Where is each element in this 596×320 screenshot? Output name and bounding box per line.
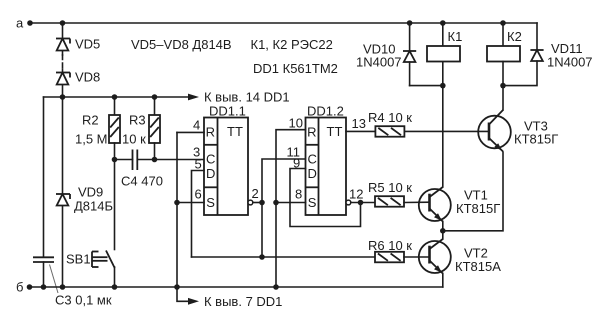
- transistor VT3 КТ815Г: [478, 110, 558, 152]
- svg-text:КТ815Г: КТ815Г: [514, 132, 558, 147]
- svg-text:5: 5: [195, 157, 202, 172]
- wire Q1 down to R6 row: [261, 203, 263, 258]
- wire ground vertical x=177 (pins 4,6 to bottom rail): [176, 132, 178, 287]
- node K1 bottom / VD10: [440, 83, 446, 89]
- node Q1 / R6 row: [259, 254, 265, 260]
- svg-text:13: 13: [352, 116, 366, 131]
- svg-text:6: 6: [195, 187, 202, 202]
- node R2 top: [112, 94, 118, 100]
- svg-text:D: D: [206, 166, 215, 181]
- svg-text:С4 470: С4 470: [121, 174, 163, 189]
- svg-text:1N4007: 1N4007: [547, 55, 593, 70]
- svg-text:2: 2: [252, 186, 259, 201]
- capacitor C3 0,1 мк: [33, 97, 112, 308]
- svg-text:С3 0,1 мк: С3 0,1 мк: [55, 293, 112, 308]
- flip-flop DD1.2 К561ТМ2: [306, 104, 347, 216]
- wire VT2 collector to common node: [442, 231, 444, 239]
- svg-text:10: 10: [289, 116, 303, 131]
- transistor VT2 КТ815А: [419, 239, 501, 274]
- svg-text:12: 12: [349, 187, 363, 202]
- transistor VT1 КТ815Г: [419, 187, 500, 222]
- wire Q1 to pin 11 of DD1.2: [262, 159, 306, 203]
- svg-text:C: C: [308, 152, 317, 167]
- wire R6 row (D1 feedback to R6): [192, 256, 376, 258]
- wire VT1 emitter to common node: [442, 222, 444, 231]
- svg-text:1,5 М: 1,5 М: [75, 132, 108, 147]
- wire pin 13 output to R4: [346, 130, 375, 132]
- node R2 bottom / C4: [112, 157, 118, 163]
- svg-text:S: S: [308, 195, 317, 210]
- svg-text:К выв. 7 DD1: К выв. 7 DD1: [204, 294, 282, 309]
- node R3 bottom / pin3 wire: [152, 157, 158, 163]
- svg-text:Д814Б: Д814Б: [74, 199, 113, 214]
- svg-text:S: S: [206, 195, 215, 210]
- wire dashed (omitted VD6,VD7): [62, 55, 64, 69]
- resistor R4 10 к: [368, 110, 489, 137]
- node b (terminal б): [16, 280, 32, 295]
- diode VD10 1N4007: [356, 23, 443, 86]
- wire pin 2 output with inversion bubble: [248, 200, 262, 205]
- svg-text:R4 10 к: R4 10 к: [368, 110, 412, 125]
- zener diode VD5 Д814В: [56, 37, 100, 52]
- svg-text:TT: TT: [327, 124, 343, 139]
- node pin12 / feedback: [358, 200, 364, 206]
- wire common node to VT3 emitter: [443, 152, 503, 231]
- svg-text:R2: R2: [82, 113, 99, 128]
- node a (terminal а): [16, 16, 33, 31]
- svg-text:R5 10 к: R5 10 к: [368, 180, 412, 195]
- wire pin 9 (D input) feedback loop: [290, 169, 361, 227]
- svg-text:DD1.2: DD1.2: [307, 104, 344, 119]
- switch SB1 push button: [66, 251, 115, 288]
- resistor R6 10 к: [368, 238, 430, 262]
- svg-text:а: а: [16, 16, 24, 31]
- node VD9 bottom: [60, 284, 66, 290]
- svg-text:8: 8: [295, 187, 302, 202]
- node K1 top: [440, 20, 446, 26]
- wire VT3 collector to K2: [502, 86, 504, 110]
- node ground vertical / bottom rail: [174, 284, 180, 290]
- wire pin 12 output with inversion bubble: [346, 200, 375, 205]
- svg-text:КТ815Г: КТ815Г: [456, 201, 500, 216]
- wire middle rail (to К выв. 14 DD1): [44, 96, 190, 98]
- relay K2 РЭС22 coil: [487, 23, 522, 86]
- wire pin 10 (R input): [276, 130, 306, 287]
- wire VD9 branch: [62, 97, 64, 287]
- svg-text:К выв. 14 DD1: К выв. 14 DD1: [204, 90, 290, 105]
- node K2 bottom / VD11: [500, 83, 506, 89]
- svg-text:К1, К2 РЭС22: К1, К2 РЭС22: [251, 37, 333, 52]
- zener diode VD9 Д814Б: [56, 185, 113, 214]
- node VT1 emitter / VT2 collector: [440, 228, 446, 234]
- zener diode VD8 Д814В: [56, 69, 100, 97]
- wire top rail: [30, 22, 537, 24]
- wire pin 6 (S input): [177, 202, 204, 204]
- svg-text:VD9: VD9: [78, 185, 103, 200]
- svg-text:R3: R3: [129, 113, 146, 128]
- node K2 top: [500, 20, 506, 26]
- node R3 top: [152, 94, 158, 100]
- svg-text:C: C: [206, 152, 215, 167]
- svg-text:DD1 К561ТМ2: DD1 К561ТМ2: [253, 61, 338, 76]
- wire SB1 branch from R2 bottom: [114, 160, 116, 250]
- svg-text:4: 4: [193, 118, 200, 133]
- wire pin 8 (S input): [276, 202, 306, 204]
- svg-text:D: D: [308, 166, 317, 181]
- node pin6 / ground vertical: [174, 200, 180, 206]
- svg-text:R: R: [307, 125, 316, 140]
- node pin8 / pin10 vertical: [273, 200, 279, 206]
- node Q1 split: [259, 200, 265, 206]
- svg-text:10 к: 10 к: [122, 132, 146, 147]
- svg-text:TT: TT: [227, 124, 243, 139]
- svg-text:1N4007: 1N4007: [356, 55, 402, 70]
- wire arrow К выв. 14 DD1: [188, 90, 290, 105]
- wire pin 5 (D input) feedback down: [192, 171, 205, 258]
- node C3 bottom: [41, 284, 47, 290]
- wire pin 4 (R input): [177, 131, 204, 133]
- svg-text:К2: К2: [507, 29, 522, 44]
- diode VD11 1N4007: [503, 23, 593, 86]
- wire VT1 collector to K1: [442, 62, 444, 188]
- capacitor C4 470: [115, 150, 205, 189]
- node VD10 top: [407, 20, 413, 26]
- svg-text:б: б: [16, 280, 23, 295]
- node junction top rail / VD5 branch: [60, 20, 66, 26]
- svg-text:КТ815А: КТ815А: [455, 259, 501, 274]
- svg-text:R: R: [206, 125, 215, 140]
- svg-text:R6 10 к: R6 10 к: [368, 238, 412, 253]
- svg-text:SB1: SB1: [66, 252, 91, 267]
- svg-text:VD8: VD8: [75, 70, 100, 85]
- svg-text:VD5–VD8 Д814В: VD5–VD8 Д814В: [131, 37, 232, 52]
- flip-flop DD1.1 К561ТМ2: [204, 104, 248, 216]
- node pin10 vertical / bottom rail: [273, 284, 279, 290]
- wire arrow К выв. 7 DD1: [177, 287, 282, 309]
- svg-text:DD1.1: DD1.1: [209, 104, 246, 119]
- node SB1 bottom: [112, 284, 118, 290]
- resistor R5 10 к: [368, 180, 430, 207]
- wire VT2 emitter to bottom rail: [442, 274, 444, 288]
- svg-text:К1: К1: [448, 29, 463, 44]
- relay K1 РЭС22 coil: [427, 23, 462, 62]
- svg-text:VD5: VD5: [75, 37, 100, 52]
- node VD8 / middle rail: [60, 94, 66, 100]
- resistor R2 1,5 М: [75, 97, 120, 160]
- resistor R3 10 к: [122, 97, 160, 160]
- wire VD5 branch top: [62, 23, 64, 55]
- wire bottom rail: [30, 286, 443, 288]
